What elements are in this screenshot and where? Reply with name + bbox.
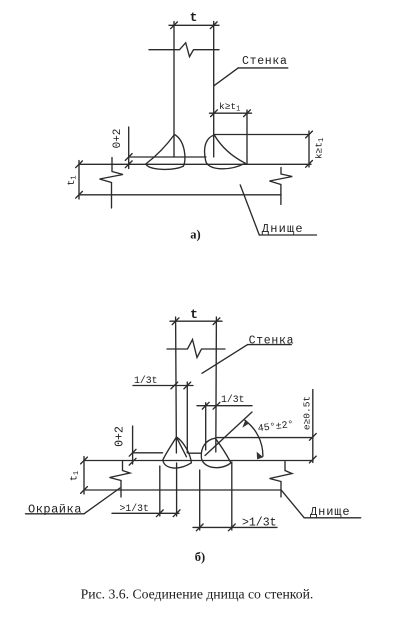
svg-text:Стенка: Стенка [242,55,288,68]
plate right break (a) [269,168,292,205]
wall break line (a) [149,43,219,57]
dimension k>=t1 right (a): bottom tick [306,161,313,168]
svg-text:0+2: 0+2 [112,129,124,149]
weld top level line to right dimension (b) [217,437,313,439]
svg-text:>1/3t: >1/3t [120,503,149,514]
svg-text:1/3t: 1/3t [221,394,245,405]
dimension >1/3t left (b): left tick [156,510,163,517]
dimension t (a): left tick [171,22,178,29]
dimension 0+2 (b): upper tick [129,449,136,456]
svg-text:Днище: Днище [310,505,351,519]
dimension t (b): left tick [172,318,179,325]
dimension 1/3t right (b): extension line [205,403,207,450]
dimension t (b): dimension line [170,320,222,322]
svg-text:45°±2°: 45°±2° [257,419,294,435]
dimension t1 (b): dimension line [83,457,85,495]
label Стенка (b): underline [248,344,292,346]
dimension 1/3t left (b): right tick [184,382,191,389]
right fillet weld (a) [205,135,246,169]
dimension t1 (a): bottom tick [76,191,83,198]
svg-text:t1: t1 [70,471,82,481]
wall left face line (a) [173,22,175,158]
dimension >1/3t left (b): dimension line [112,512,179,514]
label Стенка (a): leader line [214,68,238,86]
angle arc bottom arrowhead [257,452,264,460]
plate left break (a) [100,158,124,209]
label Окрайка: underline [26,513,85,515]
dimension t (a): right tick [210,22,217,29]
angle arc top arrowhead [242,420,249,428]
left fillet weld (b): chamfer line [176,437,186,457]
dimension 1/3t right (b): dimension line [197,405,252,407]
dimension k>=t1 right (a): dimension line [308,131,310,167]
dimension t1 (b): bottom tick [81,487,88,494]
svg-text:Стенка: Стенка [249,335,295,348]
right fillet weld (b): outline [201,438,231,467]
label Днище (b): underline [304,517,361,519]
dimension >1/3t left (b): left extension line [159,466,161,516]
dimension 1/3t left (b): extension line [186,382,188,453]
dimension k>=t1 top (a): extension line down to plate [246,110,248,164]
root gap line (b) [133,452,163,454]
dimension 0+2 (b): extension line [132,426,134,464]
dimension >1/3t left (b): right extension line [176,463,178,516]
label Днище (a): leader line [240,185,259,235]
bottom plate bottom line (a) [79,194,281,196]
wall right face line (a) [213,22,215,158]
dimension t (b): right tick [213,318,220,325]
wall left face line (b) [175,317,178,453]
label Днище (b): leader line [281,490,304,518]
svg-text:Рис. 3.6. Соединение днища со: Рис. 3.6. Соединение днища со стенкой. [81,587,314,602]
dimension >1/3t right (b): left extension line [199,470,201,530]
dimension >1/3t right (b): right extension line [231,462,233,530]
dimension 1/3t left (b): dimension line [133,385,193,387]
angle arc 45deg with arrows (b) [245,420,263,456]
45 degree construction line (b) [205,412,252,456]
dimension 0+2 (a): lower tick [125,161,132,168]
dimension e>=0.5t (b): bottom tick [309,456,316,463]
dimension k>=t1 right (a): top tick [306,131,313,138]
svg-text:t1: t1 [67,175,79,185]
svg-text:t: t [190,307,198,322]
label Стенка (a): underline [238,67,288,69]
weld top level line to right dimension (a) [215,134,310,136]
dimension 1/3t right (b): left tick [202,402,209,409]
svg-text:Днище: Днище [262,222,304,236]
dimension k>=t1 top (a): right tick [244,110,251,117]
dimension 0+2 (a): extension line [128,127,130,169]
dimension >1/3t right (b): right tick [228,524,235,531]
dimension t1 (a): dimension line [78,161,80,200]
dimension k>=t1 top (a): left tick [211,110,218,117]
dimension 0+2 (a): upper tick [125,154,132,161]
label Днище (a): underline [259,234,316,236]
dimension t1 (a): top tick [76,161,83,168]
plate right break (b) [270,462,293,498]
label Окрайка: leader line [84,488,120,514]
root gap line (a) [129,156,206,158]
svg-text:1/3t: 1/3t [134,375,158,386]
bottom plate bottom line (b) [84,489,281,491]
svg-text:а): а) [190,227,200,241]
dimension e>=0.5t (b): dimension line [312,390,314,463]
dimension >1/3t left (b): right tick [173,510,180,517]
label Стенка (b): leader line [202,345,248,374]
dimension k>=t1 top (a): dimension line [210,112,252,114]
dimension t1 (b): top tick [81,457,88,464]
dimension >1/3t right (b): dimension line [193,526,277,528]
dimension e>=0.5t (b): top tick [309,434,316,441]
left fillet weld (b): outline [163,437,192,468]
plate left break (b) [110,462,131,498]
wall break line (b) [167,340,225,358]
svg-text:б): б) [195,550,205,564]
wall right face line (b) [215,317,218,452]
svg-text:0+2: 0+2 [113,426,126,447]
left fillet weld (a) [146,135,185,170]
svg-text:e≥0.5t: e≥0.5t [302,396,313,430]
wall bottom edge segment between welds (b) [189,452,202,454]
dimension 1/3t right (b): right tick [213,402,220,409]
dimension >1/3t right (b): left tick [196,524,203,531]
svg-text:t: t [190,10,198,25]
svg-text:k≥t1: k≥t1 [219,101,240,114]
bottom plate top line (b) [84,460,313,462]
dimension 1/3t left (b): left tick [171,382,178,389]
dimension 0+2 (b): lower tick [129,458,136,465]
dimension t (a): dimension line [169,24,219,26]
bottom plate top line (a) [79,163,311,165]
svg-text:k≥t1: k≥t1 [314,138,327,159]
